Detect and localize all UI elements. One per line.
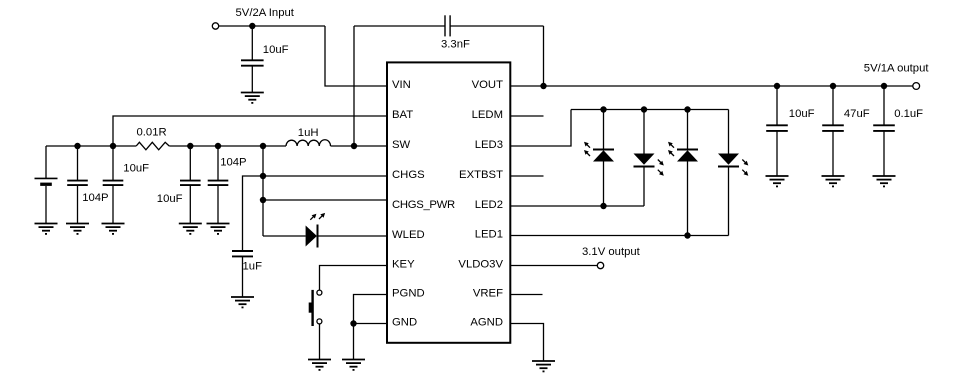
pin SW [392, 139, 411, 151]
output terminal [913, 83, 920, 90]
wire EXTBST stub [510, 175, 543, 177]
svg-text:1uF: 1uF [243, 260, 263, 272]
capacitor 104P d [208, 146, 229, 224]
ground cap 10uF b [102, 224, 125, 234]
wire riser BAT node to WLED [262, 146, 264, 236]
svg-text:EXTBST: EXTBST [459, 169, 503, 181]
wire BAT [113, 116, 387, 146]
svg-text:10uF: 10uF [123, 162, 149, 174]
wire GND [354, 323, 388, 325]
node LED B top [641, 106, 647, 112]
label 1uH [298, 127, 319, 139]
svg-text:PGND: PGND [392, 287, 425, 299]
svg-text:5V/1A output: 5V/1A output [864, 62, 930, 74]
capacitor 10uF output [766, 86, 788, 176]
node out cap 10uF junction [774, 83, 780, 89]
pin CHGS [392, 169, 425, 181]
input terminal [212, 23, 218, 29]
wire battery rail to SW [331, 145, 388, 147]
terminal 3.1V output [597, 262, 603, 268]
LED D [718, 110, 748, 236]
label 0.01R [137, 127, 167, 139]
label 3.1V output [582, 246, 641, 258]
capacitor 0.1uF output [873, 86, 895, 176]
svg-text:0.1uF: 0.1uF [894, 108, 923, 120]
pin WLED [392, 229, 425, 241]
capacitor 10uF b [103, 146, 124, 224]
wire KEY [320, 266, 388, 291]
node SW junction [351, 143, 357, 149]
label 1uF [243, 260, 263, 272]
ground pushbutton [308, 360, 331, 370]
label 104P a [82, 192, 108, 204]
wire VOUT rail [510, 85, 912, 87]
svg-text:GND: GND [392, 316, 417, 328]
ground cap 10uF c [179, 224, 202, 234]
svg-text:CHGS: CHGS [392, 169, 425, 181]
svg-text:VLDO3V: VLDO3V [458, 258, 503, 270]
wire WLED anode [263, 235, 306, 237]
pin VIN [392, 79, 411, 91]
capacitor 1uF [232, 251, 253, 297]
LED A [584, 110, 614, 207]
node CHGS riser junction [260, 173, 266, 179]
wire LED2 [510, 205, 644, 207]
svg-text:0.01R: 0.01R [137, 127, 167, 139]
svg-text:5V/2A Input: 5V/2A Input [236, 7, 295, 19]
battery cell [35, 146, 58, 224]
wire LED1 [510, 235, 728, 237]
node LED C bottom [684, 232, 690, 238]
wire LED string top rail [571, 109, 729, 111]
node LED C top [684, 106, 690, 112]
node out cap 47uF junction [830, 83, 836, 89]
svg-text:WLED: WLED [392, 229, 425, 241]
label 0.1uF output [894, 108, 923, 120]
wire AGND [510, 324, 543, 362]
wire VREF stub [510, 294, 542, 296]
svg-text:3.3nF: 3.3nF [441, 39, 470, 51]
pin AGND [470, 316, 503, 328]
pin PGND [392, 287, 425, 299]
pin LEDM [472, 109, 503, 121]
capacitor 47uF output [822, 86, 844, 176]
ground battery [35, 224, 58, 234]
capacitor 10uF input [241, 26, 264, 93]
node cap 104P a junction [74, 143, 80, 149]
svg-text:BAT: BAT [392, 109, 413, 121]
wire battery rail mid [169, 145, 286, 147]
label 47uF output [844, 108, 870, 120]
node CHGS_PWR riser junction [260, 197, 266, 203]
node out cap 0.1uF junction [881, 83, 887, 89]
pin LED3 [475, 139, 503, 151]
IC U1 body [387, 62, 510, 342]
svg-text:AGND: AGND [470, 316, 503, 328]
wire bypass to VOUT riser [543, 26, 545, 86]
wire SW riser [353, 26, 355, 146]
label 10uF b [123, 162, 149, 174]
ground AGND [532, 361, 555, 371]
ground out cap 10uF [766, 176, 789, 186]
label 5V/1A output [864, 62, 930, 74]
LED WLED indicator [306, 213, 326, 248]
label 5V/2A Input [236, 7, 295, 19]
ground cap 1uF [231, 297, 254, 307]
node cap 104P d junction [215, 143, 221, 149]
ground out cap 0.1uF [873, 176, 896, 186]
svg-text:LEDM: LEDM [472, 109, 503, 121]
svg-text:1uH: 1uH [298, 127, 319, 139]
svg-text:KEY: KEY [392, 258, 415, 270]
pin VLDO3V [458, 258, 503, 270]
svg-text:VOUT: VOUT [472, 79, 503, 91]
wire LED3 to string [510, 110, 571, 147]
capacitor 3.3nF [445, 15, 450, 36]
node PGND GND junction [350, 320, 356, 326]
ground cap 104P d [207, 224, 230, 234]
ground PGND GND [342, 360, 365, 370]
wire WLED cathode [318, 235, 388, 237]
node riser rail junction [260, 143, 266, 149]
capacitor 10uF c [180, 146, 201, 224]
pin VREF [473, 287, 503, 299]
label 10uF input [263, 44, 289, 56]
wire PGND [354, 295, 388, 324]
svg-text:10uF: 10uF [157, 193, 183, 205]
svg-text:SW: SW [392, 139, 411, 151]
wire VLDO3V [510, 265, 597, 267]
pin CHGS_PWR [392, 199, 455, 211]
svg-text:CHGS_PWR: CHGS_PWR [392, 199, 455, 211]
label 104P d [220, 157, 246, 169]
pin VOUT [472, 79, 503, 91]
node BAT rail junction [110, 143, 116, 149]
wire LEDM stub [510, 115, 543, 117]
wire battery rail left [46, 145, 136, 147]
label 3.3nF [441, 39, 470, 51]
node LED A bottom [600, 203, 606, 209]
wire CHGS_PWR [263, 199, 387, 201]
svg-text:VREF: VREF [473, 287, 503, 299]
wire top bypass rail [354, 25, 544, 27]
wire button to ground [319, 324, 321, 360]
LED C [668, 110, 698, 236]
pin KEY [392, 258, 415, 270]
label 10uF output [789, 108, 815, 120]
pin LED1 [475, 228, 503, 240]
ground cap 104P a [66, 224, 89, 234]
svg-text:10uF: 10uF [263, 44, 289, 56]
capacitor 104P a [67, 146, 88, 224]
wire input riser to VIN [325, 26, 387, 86]
label 10uF c [157, 193, 183, 205]
svg-text:47uF: 47uF [844, 108, 870, 120]
ground input cap [241, 93, 264, 103]
wire GND to ground [353, 324, 355, 360]
pin BAT [392, 109, 413, 121]
pin GND [392, 316, 417, 328]
ground out cap 47uF [822, 176, 845, 186]
svg-text:LED2: LED2 [475, 199, 503, 211]
svg-text:104P: 104P [82, 192, 108, 204]
wire CHGS [243, 176, 388, 251]
svg-text:10uF: 10uF [789, 108, 815, 120]
pin EXTBST [459, 169, 503, 181]
svg-text:VIN: VIN [392, 79, 411, 91]
node LED A top [600, 106, 606, 112]
svg-text:LED1: LED1 [475, 228, 503, 240]
wire input rail [219, 25, 325, 27]
svg-text:104P: 104P [220, 157, 246, 169]
svg-text:LED3: LED3 [475, 139, 503, 151]
inductor 1uH [286, 140, 331, 146]
pushbutton KEY switch [309, 290, 322, 326]
resistor 0.01R [136, 142, 169, 150]
node bypass VOUT junction [540, 83, 546, 89]
LED B [634, 110, 664, 207]
node input cap junction [249, 23, 255, 29]
pin LED2 [475, 199, 503, 211]
svg-text:3.1V output: 3.1V output [582, 246, 641, 258]
node cap 10uF c junction [187, 143, 193, 149]
